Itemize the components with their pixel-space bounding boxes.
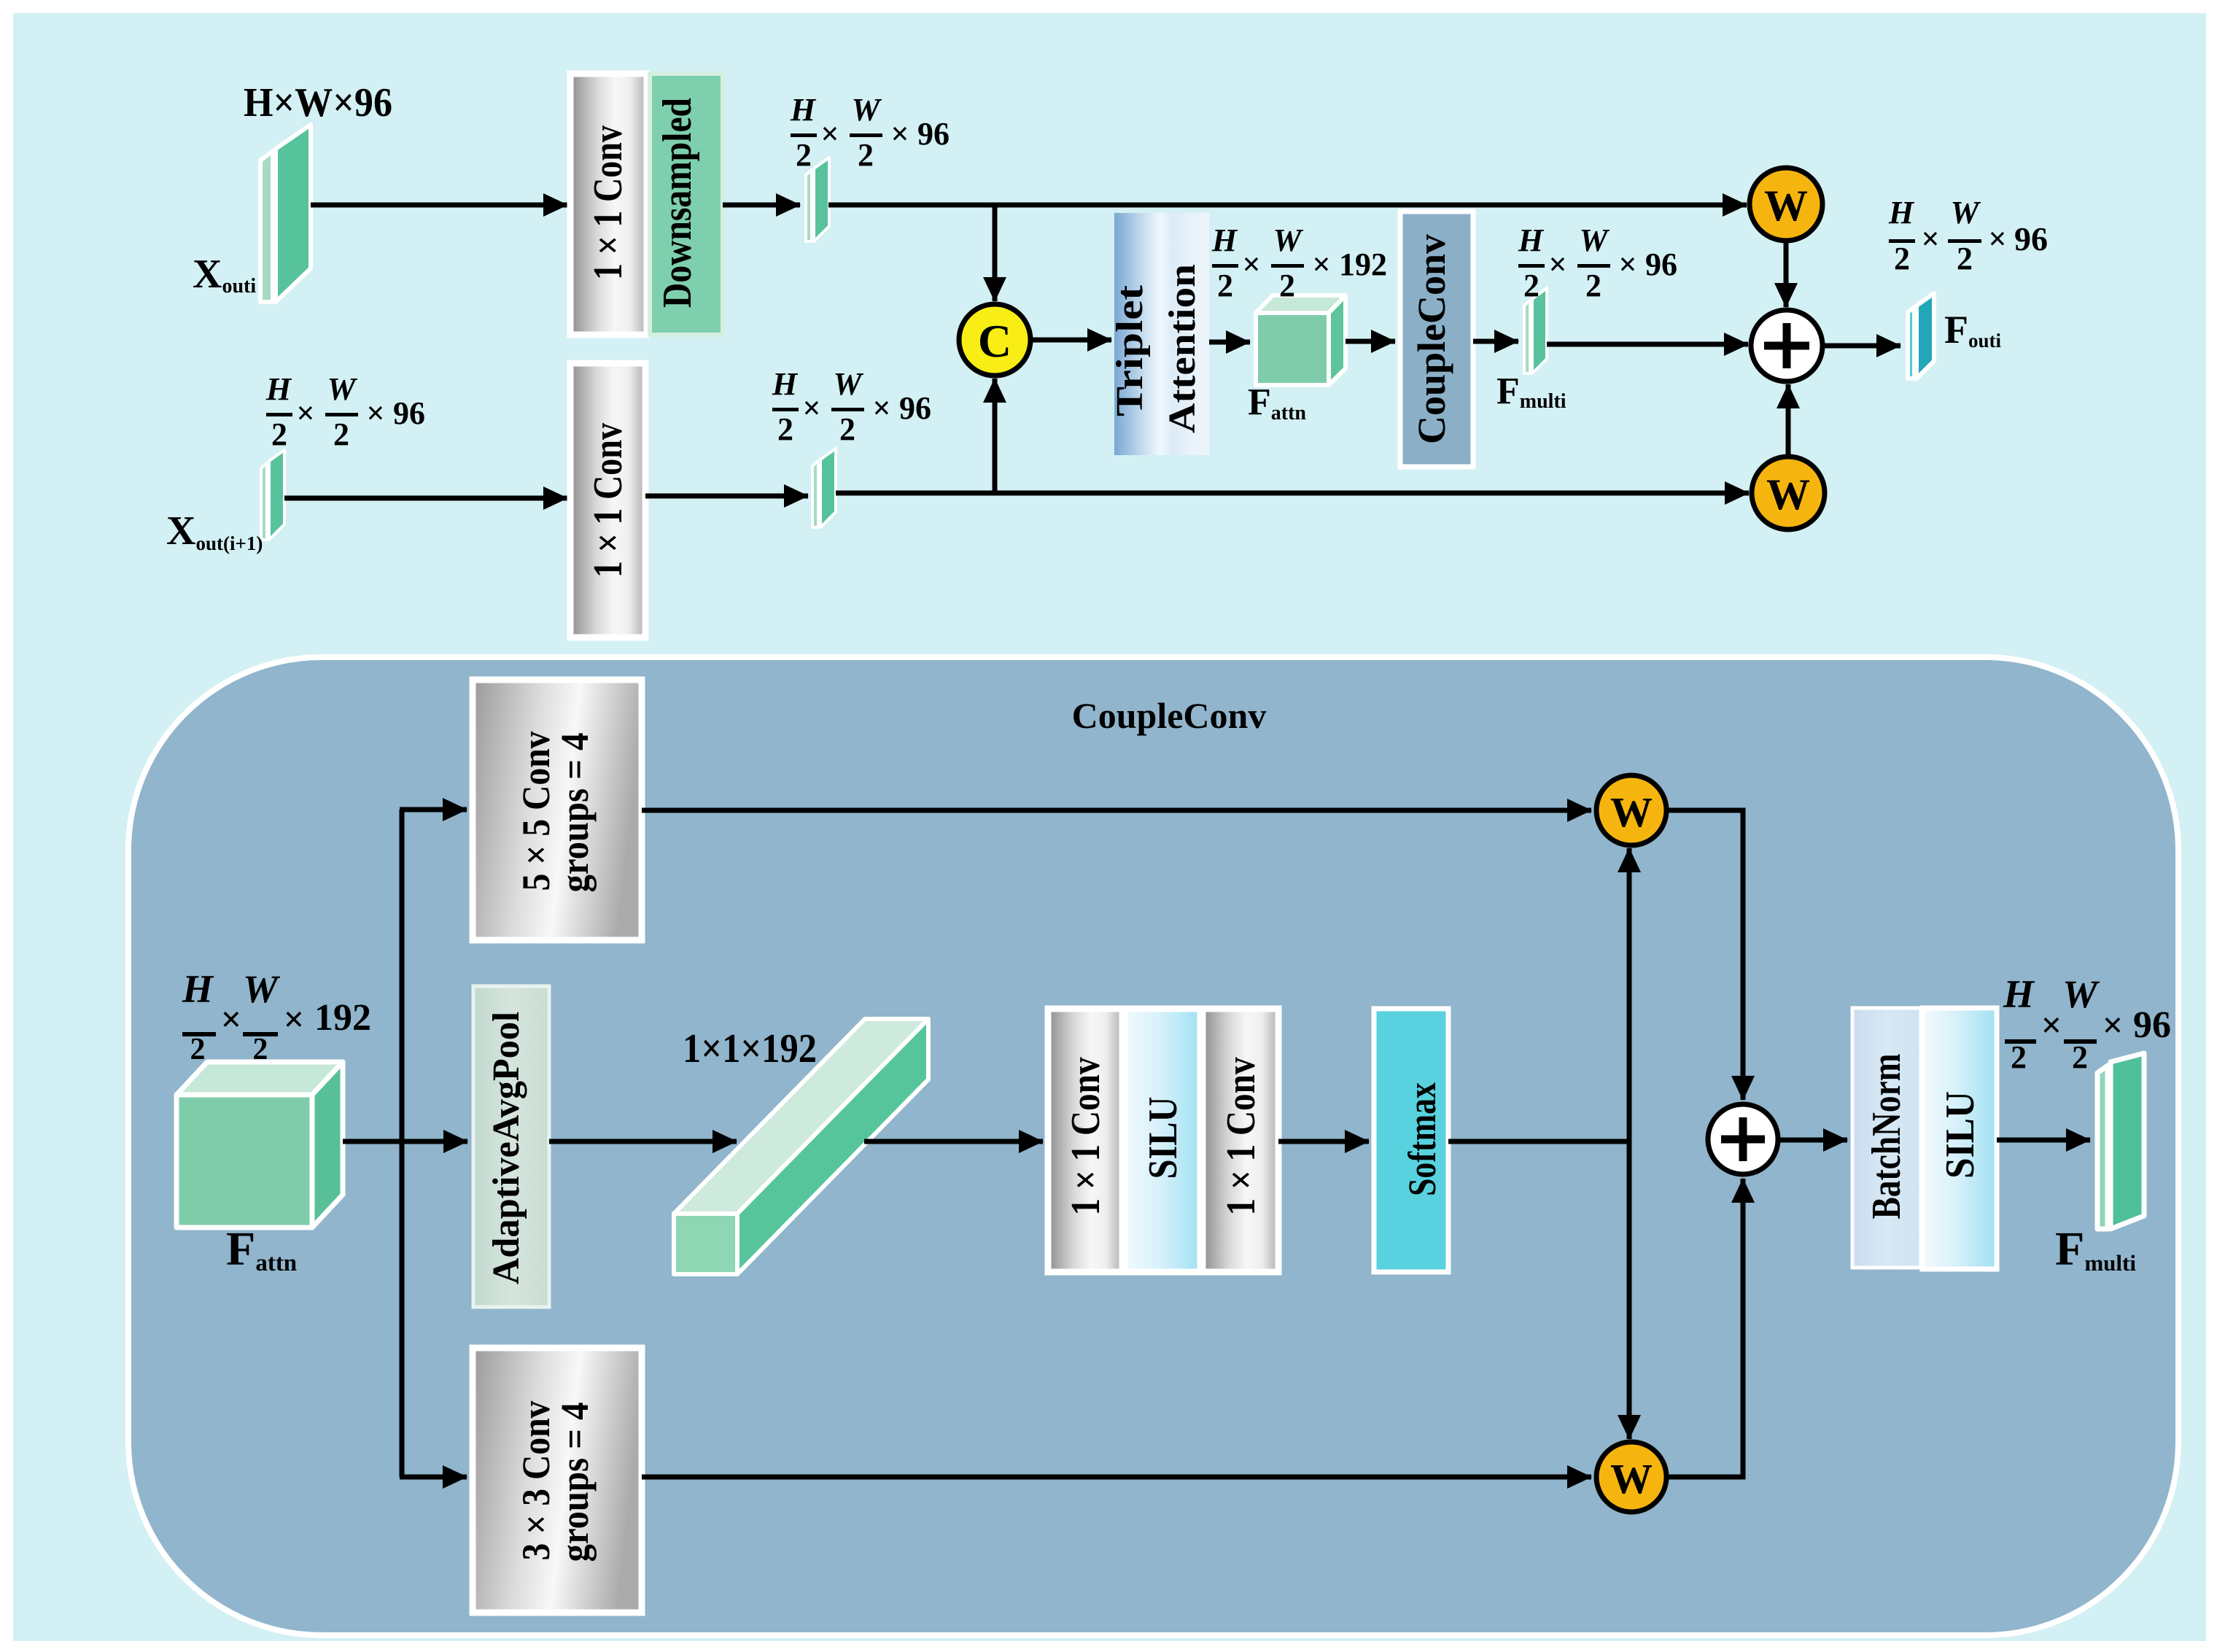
wire F_attn cube to AdaptiveAvgPool (343, 1139, 467, 1144)
svg-text:W: W (243, 967, 281, 1011)
svg-text:5 × 5 Conv: 5 × 5 Conv (514, 732, 558, 891)
svg-text:×: × (802, 390, 820, 426)
wire W down to plus (1784, 241, 1789, 307)
svg-text:H: H (265, 371, 292, 407)
node plus (bottom section) (1708, 1104, 1778, 1174)
svg-text:SILU: SILU (1141, 1097, 1186, 1179)
svg-text:H: H (1518, 222, 1545, 258)
svg-text:W: W (327, 371, 357, 407)
wire junction up to W3 (1627, 848, 1632, 1144)
wire plus to F_outi slab (1822, 344, 1900, 349)
svg-text:2: 2 (2011, 1039, 2027, 1075)
svg-text:96: 96 (917, 116, 950, 152)
wire branch to 5x5 conv (400, 807, 467, 813)
svg-text:W: W (1950, 195, 1981, 230)
svg-text:×: × (1921, 221, 1939, 257)
svg-text:×: × (2041, 1004, 2062, 1045)
svg-text:groups = 4: groups = 4 (553, 1403, 597, 1562)
wire 3x3 conv to W (642, 1475, 1591, 1480)
svg-text:W: W (1610, 1455, 1653, 1502)
svg-text:×: × (890, 116, 909, 152)
block Triplet Attention (1114, 213, 1209, 455)
svg-text:×: × (1242, 247, 1260, 282)
svg-text:2: 2 (1894, 241, 1910, 276)
svg-text:Triplet: Triplet (1109, 284, 1151, 416)
wire branch to 3x3 conv (400, 1475, 467, 1480)
wire W4 right and up to plus (1666, 1179, 1743, 1477)
node plus (top section) (1751, 310, 1822, 381)
svg-text:1×1×192: 1×1×192 (683, 1026, 817, 1071)
block Downsampled (650, 74, 723, 335)
svg-text:H: H (772, 366, 799, 402)
node C (concat) (959, 304, 1030, 376)
svg-text:×: × (1988, 221, 2006, 257)
3d bar 1x1x192 (674, 1019, 928, 1274)
svg-text:W: W (1766, 470, 1810, 519)
wire W up to plus (1786, 384, 1791, 457)
wire X_out(i+1) to 1x1 conv (284, 496, 567, 501)
svg-text:×: × (1618, 247, 1636, 282)
input slab X_out(i+1) (261, 450, 284, 540)
svg-text:96: 96 (899, 390, 931, 426)
svg-text:×: × (1312, 247, 1330, 282)
svg-text:H: H (1888, 195, 1915, 230)
block 1x1 Conv (row2) (570, 363, 645, 637)
svg-text:2: 2 (190, 1033, 206, 1066)
wire 5x5 conv to W (642, 808, 1591, 813)
wire junction down to W4 (1627, 1139, 1632, 1439)
wire junction up to C (993, 379, 998, 493)
svg-text:H: H (2003, 972, 2035, 1016)
svg-text:2: 2 (1279, 268, 1295, 303)
svg-text:H: H (182, 967, 214, 1011)
svg-text:W: W (833, 366, 863, 402)
svg-text:CoupleConv: CoupleConv (1072, 695, 1267, 736)
cube F_attn (top section) (1256, 295, 1346, 385)
wire junction down to C (993, 205, 998, 301)
block SILU (bottom) (1125, 1009, 1200, 1272)
wire W3 right and down to plus (1666, 810, 1743, 1100)
svg-text:2: 2 (253, 1033, 268, 1066)
wire row2 to W (836, 491, 1749, 496)
svg-text:2: 2 (1217, 268, 1233, 303)
block 5x5 Conv groups=4 (473, 680, 642, 940)
wire row1 to W (828, 203, 1747, 208)
wire Triplet Attention to F_attn cube (1209, 340, 1250, 345)
svg-text:×: × (221, 998, 242, 1039)
svg-text:1 × 1 Conv: 1 × 1 Conv (586, 125, 631, 280)
wire conv2 to slab (645, 494, 808, 499)
svg-text:2: 2 (796, 137, 812, 173)
svg-text:1 × 1 Conv: 1 × 1 Conv (586, 423, 631, 578)
node W (top right) (1750, 168, 1822, 241)
svg-text:×: × (872, 390, 890, 426)
svg-text:CoupleConv: CoupleConv (1410, 234, 1453, 444)
svg-text:H: H (1211, 222, 1238, 258)
svg-text:2: 2 (858, 137, 874, 173)
svg-text:BatchNorm: BatchNorm (1864, 1054, 1909, 1219)
block 1x1 Conv (bottom right) (1203, 1009, 1278, 1272)
block SILU (output) (1922, 1008, 1997, 1269)
svg-text:96: 96 (1645, 247, 1677, 282)
svg-text:×: × (296, 395, 314, 431)
svg-text:1 × 1 Conv: 1 × 1 Conv (1219, 1058, 1264, 1216)
CoupleConv rounded panel (128, 657, 2178, 1635)
node W (right row2) (1752, 457, 1825, 530)
svg-text:96: 96 (393, 395, 425, 431)
block 3x3 Conv groups=4 (473, 1348, 642, 1613)
conv slab (row2) (812, 449, 836, 527)
svg-text:Attention: Attention (1162, 264, 1203, 433)
svg-text:W: W (1579, 222, 1610, 258)
block CoupleConv (1400, 212, 1473, 467)
wire bar to 1x1 conv group (864, 1139, 1043, 1144)
svg-text:W: W (1610, 788, 1653, 836)
wire F_multi slab to plus (1547, 342, 1748, 347)
block 1x1 Conv (top) (570, 74, 647, 335)
svg-text:3 × 3 Conv: 3 × 3 Conv (514, 1401, 558, 1561)
svg-text:×: × (284, 998, 305, 1039)
svg-text:2: 2 (1523, 268, 1540, 303)
node W (bottom section top) (1596, 775, 1666, 845)
svg-text:2: 2 (333, 416, 349, 452)
svg-text:groups = 4: groups = 4 (553, 733, 597, 893)
wire X_outi to 1x1 conv (311, 203, 567, 208)
wire C to Triplet Attention (1030, 338, 1111, 343)
svg-text:Softmax: Softmax (1400, 1082, 1444, 1196)
svg-text:W: W (851, 92, 882, 128)
cube F_attn (bottom section) (176, 1062, 343, 1228)
fraction label H/2 x W/2 x 192 (F_attn bottom) (182, 967, 371, 1066)
wire AdaptiveAvgPool to 1x1x192 bar (549, 1139, 737, 1144)
wire Softmax to junction (1448, 1139, 1629, 1144)
downsampled slab (row1) (806, 158, 829, 241)
svg-text:2: 2 (777, 411, 793, 447)
wire plus to BatchNorm (1778, 1138, 1847, 1143)
svg-text:96: 96 (2014, 220, 2048, 257)
svg-text:H×W×96: H×W×96 (244, 80, 392, 125)
svg-text:×: × (2103, 1004, 2124, 1045)
slab F_multi (top) (1524, 288, 1547, 373)
svg-text:W: W (1273, 222, 1303, 258)
input slab X_outi (260, 125, 311, 302)
svg-text:2: 2 (271, 416, 287, 452)
svg-text:2: 2 (1585, 268, 1601, 303)
fraction label H/2 x W/2 x 96 (output) (2003, 972, 2171, 1075)
svg-text:AdaptiveAvgPool: AdaptiveAvgPool (486, 1012, 527, 1284)
block BatchNorm (1852, 1008, 1921, 1268)
block AdaptiveAvgPool (473, 986, 549, 1307)
svg-text:C: C (978, 315, 1012, 367)
svg-text:H: H (790, 92, 817, 128)
svg-text:2: 2 (839, 411, 855, 447)
wire conv group to Softmax (1278, 1139, 1369, 1144)
svg-text:×: × (366, 395, 384, 431)
svg-text:1 × 1 Conv: 1 × 1 Conv (1063, 1058, 1108, 1216)
wire CoupleConv to F_multi slab (1473, 339, 1518, 344)
node W (bottom section bottom) (1596, 1442, 1666, 1512)
svg-text:SILU: SILU (1938, 1091, 1983, 1179)
wire cube to CoupleConv (1346, 339, 1395, 344)
svg-text:192: 192 (1339, 247, 1387, 282)
wire SILU to F_multi slab (1997, 1138, 2090, 1143)
wire branch vertical (400, 810, 405, 1477)
wire Downsampled to slab (723, 203, 800, 208)
svg-text:2: 2 (1957, 241, 1973, 276)
slab F_multi (bottom output) (2097, 1053, 2144, 1229)
svg-text:W: W (2062, 972, 2100, 1016)
block 1x1 Conv (bottom left) (1048, 1009, 1122, 1272)
svg-text:×: × (820, 116, 839, 152)
svg-text:×: × (1548, 247, 1566, 282)
svg-text:2: 2 (2072, 1039, 2088, 1075)
svg-text:Downsampled: Downsampled (655, 98, 700, 308)
svg-text:192: 192 (314, 997, 371, 1039)
svg-text:W: W (1764, 182, 1808, 230)
svg-text:96: 96 (2133, 1004, 2171, 1046)
block Softmax (1374, 1009, 1448, 1272)
slab F_outi (teal) (1908, 293, 1934, 379)
